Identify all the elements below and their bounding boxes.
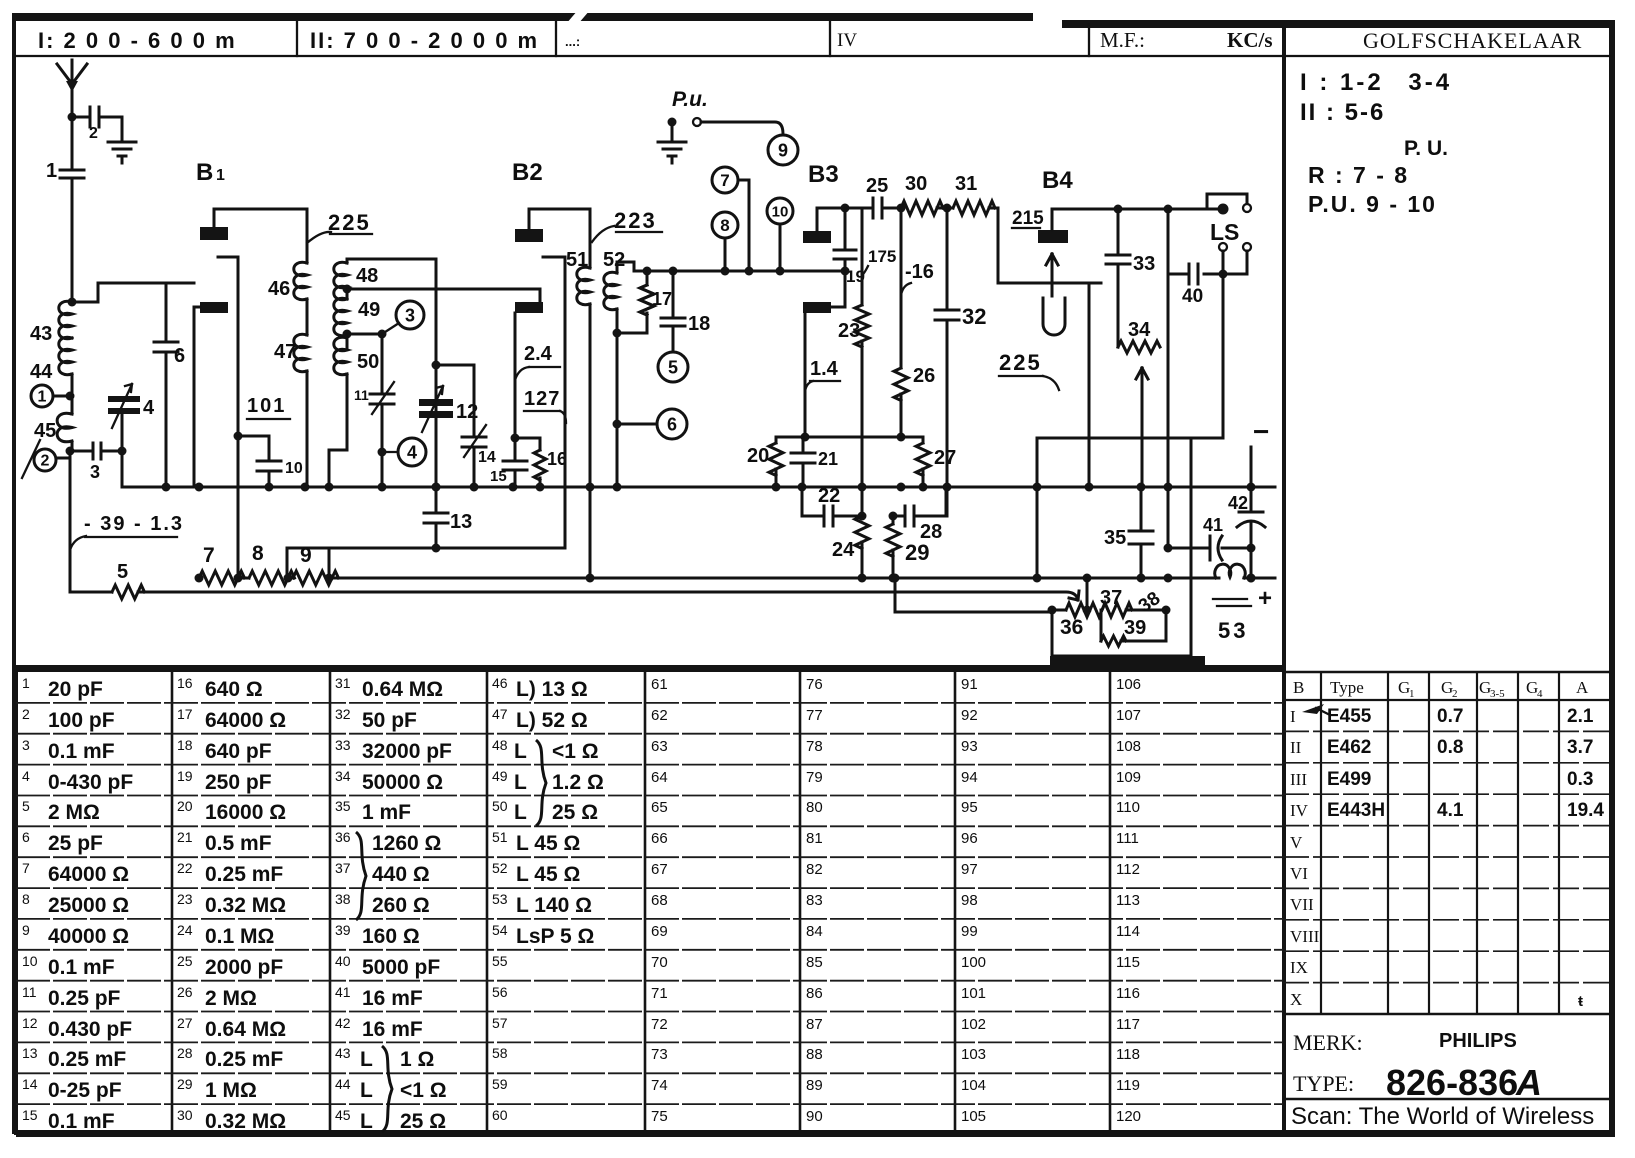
resistor R5 xyxy=(70,561,145,599)
coil 50 xyxy=(329,330,379,488)
resistor R39 xyxy=(1101,610,1166,646)
svg-text:8: 8 xyxy=(720,216,729,235)
resistor R20 xyxy=(747,437,783,487)
svg-text:2000 pF: 2000 pF xyxy=(205,956,283,979)
svg-text:2.4: 2.4 xyxy=(524,343,553,365)
svg-text:L: L xyxy=(514,771,527,794)
tube B1 label xyxy=(196,159,225,186)
coil 45 xyxy=(34,374,72,442)
svg-text:- 39 - 1.3: - 39 - 1.3 xyxy=(84,513,184,535)
resistor R24 xyxy=(832,516,869,578)
svg-text:4: 4 xyxy=(1537,688,1543,700)
label 127 xyxy=(524,388,566,423)
svg-text:LS: LS xyxy=(1210,219,1239,245)
svg-text:0-25 pF: 0-25 pF xyxy=(48,1079,122,1102)
svg-text:3: 3 xyxy=(90,462,100,482)
svg-text:2: 2 xyxy=(1452,688,1458,700)
svg-text:17: 17 xyxy=(177,706,193,722)
svg-text:I: 2 0 0 - 6 0 0 m: I: 2 0 0 - 6 0 0 m xyxy=(38,28,237,53)
svg-text:44: 44 xyxy=(335,1076,351,1092)
wire (R38 rail) xyxy=(1190,438,1193,656)
svg-text:70: 70 xyxy=(651,954,668,971)
svg-text:15: 15 xyxy=(22,1107,38,1123)
svg-text:2: 2 xyxy=(41,453,50,470)
svg-text:−: − xyxy=(1253,416,1269,447)
parts table column 4 values xyxy=(492,675,604,1123)
svg-text:31: 31 xyxy=(335,675,351,691)
wire (P.U. branch to bottom) xyxy=(69,451,72,592)
svg-text:102: 102 xyxy=(961,1016,986,1033)
svg-text:0.25 pF: 0.25 pF xyxy=(48,987,121,1010)
svg-text:51: 51 xyxy=(566,249,588,271)
label 1.4 xyxy=(805,358,840,392)
resistor R26 xyxy=(894,365,935,437)
parts table column 2 values xyxy=(177,675,286,1133)
svg-text:96: 96 xyxy=(961,830,978,847)
svg-text:86: 86 xyxy=(806,985,823,1002)
svg-text:56: 56 xyxy=(492,984,508,1000)
svg-text:0.8: 0.8 xyxy=(1437,737,1463,758)
svg-text:L 45 Ω: L 45 Ω xyxy=(516,832,580,855)
svg-text:82: 82 xyxy=(806,861,823,878)
capacitor C21 xyxy=(791,437,838,487)
svg-text:18: 18 xyxy=(177,737,193,753)
svg-text:<1 Ω: <1 Ω xyxy=(552,740,599,763)
label 101 xyxy=(247,395,290,419)
svg-text:79: 79 xyxy=(806,769,823,786)
svg-text:223: 223 xyxy=(614,208,657,233)
capacitor C41 xyxy=(1164,515,1256,560)
svg-text:250 pF: 250 pF xyxy=(205,771,272,794)
svg-text:116: 116 xyxy=(1116,985,1140,1002)
svg-text:TYPE:: TYPE: xyxy=(1293,1071,1354,1096)
svg-text:II: 7 0 0 - 2 0 0 0 m: II: 7 0 0 - 2 0 0 0 m xyxy=(310,28,539,53)
node 5 terminal xyxy=(658,352,688,382)
choke coil 53 xyxy=(1213,564,1251,643)
svg-text:48: 48 xyxy=(492,737,508,753)
svg-text:100: 100 xyxy=(961,954,986,971)
svg-text:L: L xyxy=(360,1110,373,1133)
tube B1 grid xyxy=(194,302,228,487)
resistor R34 xyxy=(1118,319,1160,353)
label 175 xyxy=(862,247,896,275)
svg-text:B2: B2 xyxy=(512,159,543,186)
svg-text:ŧ: ŧ xyxy=(1578,993,1583,1010)
tube B3 grid xyxy=(803,267,850,314)
svg-text:35: 35 xyxy=(335,798,351,814)
svg-text:4: 4 xyxy=(143,397,155,419)
svg-text:39: 39 xyxy=(335,922,351,938)
svg-text:9: 9 xyxy=(300,544,312,567)
svg-text:E499: E499 xyxy=(1327,769,1371,790)
svg-text:1260 Ω: 1260 Ω xyxy=(372,832,441,855)
node 1 terminal xyxy=(31,385,75,407)
svg-text:0.7: 0.7 xyxy=(1437,706,1463,727)
svg-text:89: 89 xyxy=(806,1077,823,1094)
svg-text:29: 29 xyxy=(905,540,929,565)
svg-text:6: 6 xyxy=(174,345,185,367)
svg-text:1 MΩ: 1 MΩ xyxy=(205,1079,257,1102)
svg-text:III: III xyxy=(1290,770,1307,789)
parts table grid xyxy=(16,656,1283,1135)
svg-text:0.32 MΩ: 0.32 MΩ xyxy=(205,894,286,917)
svg-text:25 Ω: 25 Ω xyxy=(552,801,598,824)
svg-text:22: 22 xyxy=(177,860,193,876)
tube B4 filament fork xyxy=(1043,298,1065,335)
svg-text:3: 3 xyxy=(22,737,30,753)
svg-text:7: 7 xyxy=(720,171,729,190)
svg-text:33: 33 xyxy=(335,737,351,753)
wire -16 branch xyxy=(901,208,934,368)
parts table column 1 values xyxy=(22,675,133,1133)
grid feed wire 225 xyxy=(999,283,1089,487)
svg-text:0.430 pF: 0.430 pF xyxy=(48,1018,132,1041)
svg-text:25 pF: 25 pF xyxy=(48,832,103,855)
svg-text:PHILIPS: PHILIPS xyxy=(1439,1030,1517,1052)
svg-text:0.1 mF: 0.1 mF xyxy=(48,740,115,763)
svg-text:119: 119 xyxy=(1116,1077,1140,1094)
svg-text:73: 73 xyxy=(651,1046,668,1063)
capacitor C10 xyxy=(257,460,303,487)
parts table column 3 values xyxy=(335,675,452,1133)
svg-text:6: 6 xyxy=(22,829,30,845)
svg-text:49: 49 xyxy=(492,768,508,784)
svg-text:25: 25 xyxy=(177,953,193,969)
svg-text:M.F.:: M.F.: xyxy=(1100,28,1145,52)
svg-text:61: 61 xyxy=(651,676,668,693)
resistor R27 xyxy=(901,437,956,487)
svg-text:34: 34 xyxy=(1128,319,1151,341)
variable capacitor C4 xyxy=(108,384,155,487)
potentiometer wiper 34 xyxy=(1136,368,1148,487)
svg-text:4.1: 4.1 xyxy=(1437,800,1464,821)
label 215 xyxy=(1012,208,1044,229)
detector wire xyxy=(634,267,845,276)
node 2 terminal xyxy=(34,447,75,472)
svg-text:25000 Ω: 25000 Ω xyxy=(48,894,129,917)
svg-text:53: 53 xyxy=(492,891,508,907)
svg-text:71: 71 xyxy=(651,985,668,1002)
tube B2 cathode xyxy=(543,257,565,548)
svg-text:23: 23 xyxy=(177,891,193,907)
svg-text:9: 9 xyxy=(778,140,788,160)
wire (48/49 tap to B2 grid) xyxy=(343,285,541,303)
svg-text:84: 84 xyxy=(806,923,823,940)
wire (switch to output network) xyxy=(1037,274,1223,578)
svg-text:64000 Ω: 64000 Ω xyxy=(48,863,129,886)
svg-text:VII: VII xyxy=(1290,895,1314,914)
svg-text:112: 112 xyxy=(1116,861,1140,878)
svg-text:49: 49 xyxy=(358,299,380,321)
svg-text:-16: -16 xyxy=(905,261,934,283)
svg-text:83: 83 xyxy=(806,892,823,909)
capacitor C19 xyxy=(834,204,865,287)
svg-text:4: 4 xyxy=(407,442,417,462)
svg-text:117: 117 xyxy=(1116,1016,1140,1033)
svg-text:55: 55 xyxy=(492,953,508,969)
wire (minus rail) xyxy=(1247,548,1256,583)
tube B2 grid xyxy=(515,302,543,438)
tube B4 grid xyxy=(1074,282,1101,285)
svg-text:30: 30 xyxy=(905,173,927,195)
coil 49 xyxy=(334,289,380,348)
merk box xyxy=(1283,1030,1612,1130)
svg-text:L 45 Ω: L 45 Ω xyxy=(516,863,580,886)
svg-text:20 pF: 20 pF xyxy=(48,678,103,701)
svg-text:Type: Type xyxy=(1330,678,1364,697)
svg-text:85: 85 xyxy=(806,954,823,971)
svg-text:VI: VI xyxy=(1290,864,1308,883)
bus wire (heater rail bottom) xyxy=(138,591,1027,594)
resistor R37 xyxy=(1048,587,1123,617)
svg-text:64000 Ω: 64000 Ω xyxy=(205,709,286,732)
svg-text:80: 80 xyxy=(806,799,823,816)
node 3 terminal xyxy=(378,301,425,339)
svg-text:175: 175 xyxy=(868,247,896,266)
svg-text:8: 8 xyxy=(22,891,30,907)
ground bus xyxy=(122,483,1275,492)
parts table empty columns numbers xyxy=(651,676,1141,1125)
svg-text:1: 1 xyxy=(38,389,47,406)
svg-text:48: 48 xyxy=(356,265,378,287)
tube B2 anode xyxy=(515,209,590,268)
svg-text:5000 pF: 5000 pF xyxy=(362,956,440,979)
svg-text:32: 32 xyxy=(962,304,986,329)
svg-text:20: 20 xyxy=(177,798,193,814)
svg-text:2: 2 xyxy=(89,125,98,142)
svg-text:46: 46 xyxy=(268,278,290,300)
tube B3 anode xyxy=(803,208,845,243)
svg-text:19: 19 xyxy=(177,768,193,784)
svg-text:0.3: 0.3 xyxy=(1567,769,1593,790)
svg-text:2 MΩ: 2 MΩ xyxy=(48,801,100,824)
svg-text:2 MΩ: 2 MΩ xyxy=(205,987,257,1010)
svg-text:0.5 mF: 0.5 mF xyxy=(205,832,272,855)
svg-text:17: 17 xyxy=(652,289,672,309)
svg-text:II : 5-6: II : 5-6 xyxy=(1300,99,1385,126)
svg-text:67: 67 xyxy=(651,861,668,878)
svg-text:110: 110 xyxy=(1116,799,1140,816)
tube B4 anode xyxy=(1038,204,1229,244)
tube B1 cathode xyxy=(218,257,238,578)
svg-text:640 pF: 640 pF xyxy=(205,740,272,763)
svg-text:5: 5 xyxy=(117,561,128,583)
antenna xyxy=(57,60,87,117)
capacitor C42 xyxy=(1228,447,1265,548)
svg-text:43: 43 xyxy=(30,323,52,345)
svg-text:0.1 mF: 0.1 mF xyxy=(48,1110,115,1133)
svg-text:106: 106 xyxy=(1116,676,1141,693)
svg-text:A: A xyxy=(1576,678,1589,697)
svg-text:41: 41 xyxy=(1203,515,1223,535)
svg-text:L: L xyxy=(514,801,527,824)
resistor R9 xyxy=(284,544,339,585)
svg-text:5: 5 xyxy=(668,357,678,377)
svg-text:11: 11 xyxy=(354,387,369,403)
capacitor C1 xyxy=(46,117,84,300)
svg-text:L) 52 Ω: L) 52 Ω xyxy=(516,709,588,732)
svg-text:68: 68 xyxy=(651,892,668,909)
svg-text:51: 51 xyxy=(492,829,508,845)
svg-text:2.1: 2.1 xyxy=(1567,706,1594,727)
svg-text:MERK:: MERK: xyxy=(1293,1030,1363,1055)
svg-text:Scan: The World of Wireless: Scan: The World of Wireless xyxy=(1291,1103,1594,1130)
svg-text:IV: IV xyxy=(837,30,857,51)
coil 48 xyxy=(334,259,436,300)
label 223 xyxy=(592,208,662,242)
label 2.4 xyxy=(515,343,560,380)
valve table rows xyxy=(1290,704,1604,1010)
node A (antenna junction) xyxy=(68,113,77,122)
svg-text:30: 30 xyxy=(177,1107,193,1123)
svg-text:77: 77 xyxy=(806,707,823,724)
svg-text:1: 1 xyxy=(1409,688,1415,700)
svg-text:94: 94 xyxy=(961,769,978,786)
svg-text:7: 7 xyxy=(203,544,215,567)
svg-text:66: 66 xyxy=(651,830,668,847)
svg-text:KC/s: KC/s xyxy=(1227,28,1273,52)
svg-text:41: 41 xyxy=(335,984,351,1000)
svg-text:2: 2 xyxy=(22,706,30,722)
svg-text:74: 74 xyxy=(651,1077,668,1094)
svg-text:37: 37 xyxy=(335,860,351,876)
capacitor C18 xyxy=(661,271,710,352)
svg-text:0.64 MΩ: 0.64 MΩ xyxy=(362,678,443,701)
capacitor C6 xyxy=(154,283,185,487)
svg-text:25: 25 xyxy=(866,175,888,197)
svg-text:87: 87 xyxy=(806,1016,823,1033)
svg-text:47: 47 xyxy=(492,706,508,722)
svg-text:99: 99 xyxy=(961,923,978,940)
wire (22/28 row to R37) xyxy=(891,574,1053,613)
svg-text:93: 93 xyxy=(961,738,978,755)
svg-text:92: 92 xyxy=(961,707,978,724)
svg-text:33: 33 xyxy=(1133,253,1155,275)
resistor R7 xyxy=(195,544,245,585)
svg-text:16 mF: 16 mF xyxy=(362,1018,423,1041)
svg-text:1.2 Ω: 1.2 Ω xyxy=(552,771,604,794)
svg-text:36: 36 xyxy=(335,829,351,845)
capacitor C28 xyxy=(893,487,946,543)
svg-text:58: 58 xyxy=(492,1045,508,1061)
node 10 terminal xyxy=(767,198,793,276)
svg-text:19.4: 19.4 xyxy=(1567,800,1604,821)
capacitor C2 xyxy=(72,107,122,142)
golfschakelaar switch table text xyxy=(1300,69,1452,217)
svg-text:13: 13 xyxy=(450,511,472,533)
svg-text:11: 11 xyxy=(22,984,37,1000)
svg-text:103: 103 xyxy=(961,1046,986,1063)
svg-text:X: X xyxy=(1290,990,1302,1009)
svg-text:10: 10 xyxy=(285,460,303,477)
minus terminal xyxy=(1253,416,1269,447)
wire R36 loop xyxy=(1052,578,1191,656)
svg-text:21: 21 xyxy=(818,449,838,469)
capacitor C40 xyxy=(1164,205,1228,549)
svg-text:640 Ω: 640 Ω xyxy=(205,678,263,701)
tube B4 cathode arrow xyxy=(1046,254,1058,296)
svg-text:75: 75 xyxy=(651,1108,668,1125)
svg-text:101: 101 xyxy=(961,985,986,1002)
svg-text:32000 pF: 32000 pF xyxy=(362,740,452,763)
wiper arrow into R37 xyxy=(1027,591,1079,600)
P.U. label xyxy=(672,88,708,111)
svg-text:0.1 mF: 0.1 mF xyxy=(48,956,115,979)
svg-text:118: 118 xyxy=(1116,1046,1140,1063)
svg-text:45: 45 xyxy=(335,1107,351,1123)
svg-text:I : 1-2 3-4: I : 1-2 3-4 xyxy=(1300,69,1452,96)
variable capacitor C12 xyxy=(419,386,478,432)
svg-text:54: 54 xyxy=(492,922,508,938)
svg-text:0.25 mF: 0.25 mF xyxy=(205,1048,283,1071)
tube B3 label xyxy=(808,161,839,188)
svg-text:81: 81 xyxy=(806,830,823,847)
svg-text:69: 69 xyxy=(651,923,668,940)
node 9 terminal xyxy=(701,122,798,165)
coil 47 xyxy=(274,299,307,487)
svg-text:101: 101 xyxy=(247,395,286,417)
capacitor C32 xyxy=(935,208,986,516)
svg-text:36: 36 xyxy=(1060,616,1083,639)
svg-text:1: 1 xyxy=(216,167,225,184)
resistor R31 xyxy=(937,173,1074,283)
svg-text:0.32 MΩ: 0.32 MΩ xyxy=(205,1110,286,1133)
variable capacitor C11 xyxy=(347,334,394,487)
svg-text:127: 127 xyxy=(524,388,560,410)
svg-text:L: L xyxy=(360,1079,373,1102)
capacitor C22 xyxy=(802,485,867,526)
svg-text:B3: B3 xyxy=(808,161,839,188)
capacitor C33 xyxy=(1106,205,1155,348)
svg-text:52: 52 xyxy=(492,860,508,876)
svg-text:6: 6 xyxy=(667,414,677,434)
wire cathode to C10 xyxy=(234,432,270,462)
B+ bus xyxy=(329,574,1275,583)
variable capacitor C14 xyxy=(432,361,496,488)
svg-text:9: 9 xyxy=(22,922,30,938)
svg-text:E462: E462 xyxy=(1327,737,1371,758)
resistor R16 xyxy=(515,438,567,487)
svg-text:+: + xyxy=(1258,585,1272,612)
capacitor C15 xyxy=(490,434,527,488)
svg-text:GOLFSCHAKELAAR: GOLFSCHAKELAAR xyxy=(1363,28,1582,53)
svg-text:I: I xyxy=(1290,707,1296,726)
svg-text:B: B xyxy=(196,159,213,186)
svg-text:24: 24 xyxy=(177,922,193,938)
stray pen slash xyxy=(22,440,40,478)
capacitor C35 xyxy=(1104,487,1153,578)
svg-text:IX: IX xyxy=(1290,958,1308,977)
svg-text:35: 35 xyxy=(1104,527,1126,549)
svg-text:225: 225 xyxy=(328,210,371,235)
svg-text:0.1 MΩ: 0.1 MΩ xyxy=(205,925,274,948)
svg-text:72: 72 xyxy=(651,1016,668,1033)
node 7 terminal xyxy=(712,167,749,271)
svg-text:18: 18 xyxy=(688,313,710,335)
svg-text:50: 50 xyxy=(357,351,379,373)
label 225 (B1 anode coil) xyxy=(307,210,372,243)
loudspeaker switch LS xyxy=(1204,194,1251,274)
svg-text:23: 23 xyxy=(838,320,860,342)
svg-text:260 Ω: 260 Ω xyxy=(372,894,430,917)
svg-text:65: 65 xyxy=(651,799,668,816)
svg-text:46: 46 xyxy=(492,675,508,691)
ground (antenna input) xyxy=(108,142,136,163)
svg-text:440 Ω: 440 Ω xyxy=(372,863,430,886)
svg-text:42: 42 xyxy=(335,1015,351,1031)
coil 46 xyxy=(268,209,307,300)
svg-text:160 Ω: 160 Ω xyxy=(362,925,420,948)
